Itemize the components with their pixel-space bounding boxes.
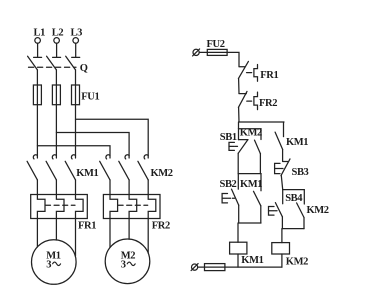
motor M1 lead 2 xyxy=(55,219,57,241)
stage2 rejoin line xyxy=(239,222,261,224)
KM2 main contact 2 xyxy=(119,155,129,195)
svg-text:3: 3 xyxy=(46,259,51,270)
KM1 main contact 3 xyxy=(65,155,75,195)
motor M2 xyxy=(105,239,150,284)
svg-text:FU1: FU1 xyxy=(81,91,99,102)
wire L3 to switch xyxy=(75,43,77,57)
FR2 NC contact xyxy=(238,91,247,122)
bottom fuse xyxy=(205,264,225,271)
KM1 main contact 2 xyxy=(46,155,56,195)
wire to KM2 coil xyxy=(281,229,283,243)
svg-text:SB2: SB2 xyxy=(220,179,237,190)
wire FU2 to FR1 contact xyxy=(227,52,239,66)
FR1 release bracket xyxy=(247,65,258,82)
motor M2 lead 1 xyxy=(109,219,111,248)
phase wire 3 down xyxy=(75,105,77,158)
phase wire 2 down xyxy=(55,105,57,158)
KM2 main contact 1 xyxy=(100,155,110,195)
svg-text:3: 3 xyxy=(121,259,126,270)
svg-text:KM2: KM2 xyxy=(307,205,329,216)
SB4 KM2 branch line xyxy=(283,189,305,191)
svg-text:L1: L1 xyxy=(34,28,46,39)
svg-text:KM2: KM2 xyxy=(151,168,173,179)
pushbutton SB4 xyxy=(275,190,282,229)
motor M1 xyxy=(32,240,77,285)
svg-text:KM2: KM2 xyxy=(286,257,308,268)
wire switch to fuse 3 xyxy=(75,70,77,85)
wire L2 to switch xyxy=(56,43,58,57)
SB1 actuator E xyxy=(229,142,238,150)
right branch drop xyxy=(283,122,285,137)
phase wire 1 down xyxy=(36,105,38,158)
knife switch Q pole 2 xyxy=(47,56,61,70)
KM1 aux contact right xyxy=(275,132,283,161)
svg-text:FR2: FR2 xyxy=(259,98,277,109)
svg-text:FU2: FU2 xyxy=(207,39,225,50)
FR1 NC contact xyxy=(238,61,248,93)
thermal relay FR1 box xyxy=(31,195,88,219)
wire terminal to bottom fuse xyxy=(198,266,205,268)
coil KM2 xyxy=(272,243,290,254)
svg-text:KM1: KM1 xyxy=(240,179,262,190)
thermal relay FR2 box xyxy=(103,195,160,219)
FR2 linkage dashed xyxy=(118,204,148,206)
knife switch Q pole 3 xyxy=(66,56,80,70)
pushbutton SB1 xyxy=(238,129,248,174)
crossover wire phase2 to branch2 xyxy=(56,133,129,159)
wire KM1 coil to bottom rail xyxy=(237,254,239,267)
KM2 aux contact right xyxy=(297,190,305,229)
svg-text:KM1: KM1 xyxy=(76,168,98,179)
fuse FU2 xyxy=(207,49,227,55)
terminal L2 xyxy=(52,28,64,44)
right branch rejoin line xyxy=(282,228,304,230)
fuse FU1 pole 3 xyxy=(72,85,80,105)
svg-text:SB3: SB3 xyxy=(292,167,309,178)
wire terminal to FU2 xyxy=(199,51,207,53)
crossover wire phase1 to branch2 xyxy=(37,146,110,158)
FR2 heater element 3 xyxy=(148,195,156,219)
terminal L1 xyxy=(34,28,46,44)
FR2 heater element 2 xyxy=(129,195,137,219)
pushbutton SB3 NC xyxy=(281,159,290,190)
left branch drop wire xyxy=(238,122,240,129)
svg-text:FR1: FR1 xyxy=(260,70,278,81)
bottom rail xyxy=(225,266,282,268)
wire L1 to switch xyxy=(37,43,39,57)
FR1 heater element 3 xyxy=(76,195,84,219)
FR1 linkage dashed xyxy=(46,204,76,206)
SB4 actuator E xyxy=(269,207,279,216)
svg-text:SB1: SB1 xyxy=(220,132,237,143)
svg-text:KM1: KM1 xyxy=(241,255,263,266)
motor M2 lead 3 xyxy=(147,219,149,254)
motor M1 lead 1 xyxy=(36,219,38,248)
wire KM2 coil to bottom rail xyxy=(281,254,283,267)
stage1 rejoin line xyxy=(238,173,261,175)
svg-text:KM1: KM1 xyxy=(286,137,308,148)
fuse FU1 pole 2 xyxy=(52,85,60,105)
SB2 actuator E xyxy=(222,194,235,203)
wire switch to fuse 1 xyxy=(36,70,38,85)
control supply terminal top xyxy=(193,49,200,56)
wire to KM1 coil xyxy=(237,223,239,242)
svg-text:SB4: SB4 xyxy=(285,193,303,204)
motor M2 lead 2 xyxy=(128,219,130,240)
coil KM1 xyxy=(230,242,247,254)
KM2 aux contact left xyxy=(255,129,262,174)
control supply terminal bottom xyxy=(191,264,198,271)
control top rail xyxy=(239,121,284,123)
crossover wire phase3 to branch2 xyxy=(76,119,149,158)
FR1 heater element 2 xyxy=(56,195,64,219)
svg-text:KM2: KM2 xyxy=(240,128,262,139)
svg-text:Q: Q xyxy=(80,63,88,74)
svg-text:L2: L2 xyxy=(52,28,64,39)
svg-text:L3: L3 xyxy=(71,28,83,39)
switch Q linkage dashed xyxy=(29,66,77,68)
FR2 release bracket xyxy=(247,92,258,110)
svg-text:FR1: FR1 xyxy=(78,221,96,232)
KM1 main contact 1 xyxy=(27,155,37,195)
pushbutton SB2 xyxy=(232,174,239,223)
FR2 heater element 1 xyxy=(110,195,118,219)
terminal L3 xyxy=(71,28,83,44)
fuse FU1 pole 1 xyxy=(33,85,41,105)
KM1 aux contact left xyxy=(254,174,262,223)
knife switch Q pole 1 xyxy=(28,56,42,70)
SB3 actuator E xyxy=(275,163,285,173)
SB1 KM2 branch line xyxy=(239,128,262,130)
svg-text:FR2: FR2 xyxy=(152,221,170,232)
wire switch to fuse 2 xyxy=(55,70,57,85)
KM2 main contact 3 xyxy=(138,155,148,195)
FR1 heater element 1 xyxy=(37,195,45,219)
motor M1 lead 3 xyxy=(75,219,77,257)
